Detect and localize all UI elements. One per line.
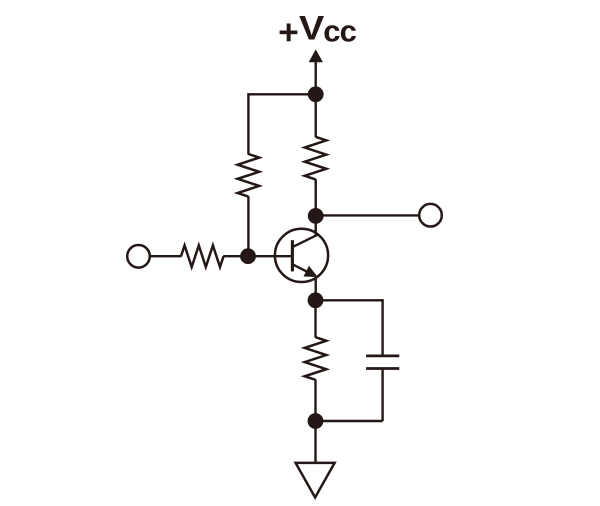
wire R3 to node E (314, 379, 316, 421)
resistor R3 (emitter) (305, 337, 327, 380)
label +Vcc plus sign (280, 24, 298, 42)
resistor Rin (base series) (181, 245, 224, 267)
wire left branch down to R1 (247, 93, 249, 154)
wire Rin to node B and transistor base (223, 255, 292, 257)
wire collector to node C (315, 216, 317, 236)
transistor Q1 circle (275, 229, 328, 282)
transistor Q1 collector stroke (293, 235, 317, 247)
svg-text:cc: cc (323, 13, 356, 48)
resistor R2 (collector load) (305, 137, 327, 180)
wire input terminal to Rin (150, 255, 182, 257)
wire node A to left branch (248, 93, 315, 95)
wire capacitor top lead (381, 299, 383, 355)
output terminal circle (419, 204, 442, 227)
resistor R1 (base bias) (238, 154, 260, 197)
capacitor C1 bottom plate (366, 367, 399, 370)
node C (collector / output junction) (308, 208, 324, 224)
wire Vcc arrow to node A (315, 61, 317, 94)
node D (emitter junction) (308, 292, 324, 308)
node B (base junction) (240, 248, 256, 264)
node E (emitter ground junction) (308, 413, 324, 429)
transistor Q1 emitter stroke (293, 265, 314, 276)
wire node C to output terminal (316, 214, 419, 216)
node A (Vcc rail junction) (308, 86, 324, 102)
svg-text:V: V (299, 10, 325, 48)
transistor Q1 base bar (291, 240, 294, 271)
transistor Q1 emitter arrow (305, 267, 317, 276)
wire node A to R2 (315, 94, 317, 137)
wire node D to capacitor branch (316, 299, 383, 301)
wire bottom branch to node E (316, 420, 383, 422)
wire node E to ground (314, 421, 316, 464)
wire R1 to node B (247, 196, 249, 256)
wire R2 to node C (315, 179, 317, 216)
ground symbol (296, 463, 335, 498)
wire emitter to node D (315, 278, 317, 301)
wire node D to R3 (314, 300, 316, 337)
Vcc arrow head (310, 50, 323, 61)
wire capacitor bottom lead (381, 370, 383, 421)
input terminal circle (127, 245, 150, 268)
capacitor C1 top plate (366, 355, 399, 358)
